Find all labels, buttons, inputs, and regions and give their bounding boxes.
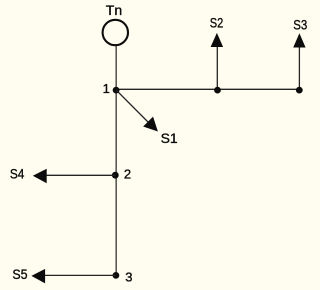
wire horizontal bus node1 to S3 xyxy=(116,88,300,90)
wire S4 feeder xyxy=(46,174,116,176)
svg-text:S5: S5 xyxy=(12,266,27,282)
svg-text:S4: S4 xyxy=(10,166,25,182)
svg-text:S2: S2 xyxy=(210,15,224,31)
wire S5 feeder xyxy=(44,274,116,276)
node 1 xyxy=(113,87,120,94)
wire S3 branch xyxy=(298,47,300,90)
node S2 junction xyxy=(214,87,221,94)
node 2 xyxy=(112,172,119,179)
svg-text:Tn: Tn xyxy=(106,2,122,18)
load arrow S2 xyxy=(211,33,224,47)
svg-text:3: 3 xyxy=(125,269,132,284)
svg-text:S1: S1 xyxy=(161,130,178,146)
load arrow S1 xyxy=(116,90,150,124)
svg-text:S3: S3 xyxy=(293,17,307,33)
svg-text:1: 1 xyxy=(103,81,110,96)
wire main vertical feeder xyxy=(115,46,117,275)
load arrow S4 xyxy=(33,169,47,184)
load arrow S5 xyxy=(31,269,45,284)
node S3 junction xyxy=(296,87,303,94)
node 3 xyxy=(113,272,120,279)
svg-text:2: 2 xyxy=(124,167,131,182)
transformer Tn xyxy=(103,20,128,45)
load arrow S3 xyxy=(293,33,305,47)
wire S2 branch xyxy=(216,46,218,89)
